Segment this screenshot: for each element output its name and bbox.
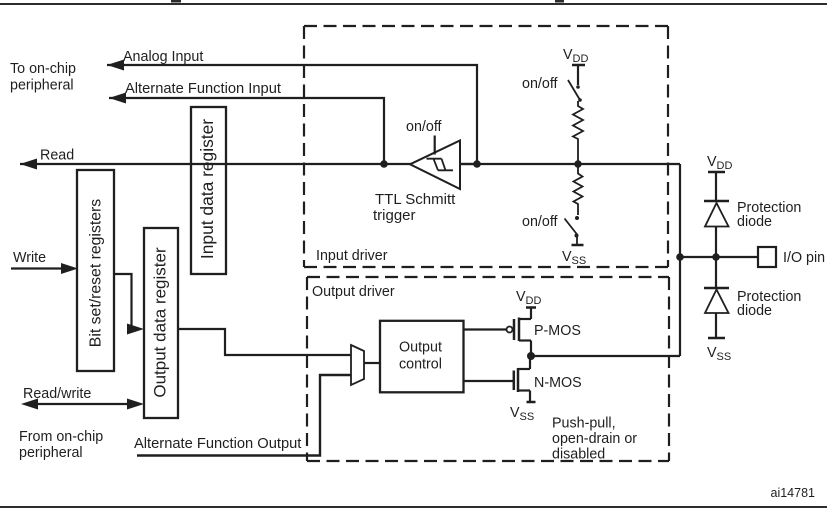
svg-text:on/off: on/off: [406, 119, 442, 135]
svg-text:VSS: VSS: [510, 405, 534, 423]
svg-text:From on-chip: From on-chip: [19, 429, 103, 445]
svg-text:open-drain or: open-drain or: [552, 431, 637, 447]
svg-text:I/O pin: I/O pin: [783, 250, 825, 266]
svg-text:P-MOS: P-MOS: [534, 323, 581, 339]
svg-text:N-MOS: N-MOS: [534, 375, 582, 391]
svg-text:Push-pull,: Push-pull,: [552, 416, 616, 432]
svg-text:Analog Input: Analog Input: [123, 49, 203, 65]
svg-text:VSS: VSS: [562, 249, 586, 267]
svg-text:VDD: VDD: [563, 47, 588, 65]
svg-text:TTL Schmitt: TTL Schmitt: [375, 191, 456, 208]
svg-text:Write: Write: [13, 250, 46, 266]
svg-text:peripheral: peripheral: [19, 445, 83, 461]
svg-text:Output: Output: [399, 340, 442, 356]
svg-text:diode: diode: [737, 303, 772, 319]
svg-text:ai14781: ai14781: [771, 486, 816, 500]
svg-text:Read/write: Read/write: [23, 386, 91, 402]
svg-text:Alternate Function Input: Alternate Function Input: [125, 81, 281, 97]
svg-text:diode: diode: [737, 214, 772, 230]
svg-text:Output data register: Output data register: [151, 247, 170, 398]
svg-text:Bit set/reset registers: Bit set/reset registers: [88, 199, 105, 347]
svg-text:peripheral: peripheral: [10, 78, 74, 94]
svg-text:on/off: on/off: [522, 214, 558, 230]
svg-text:disabled: disabled: [552, 447, 605, 463]
svg-text:To on-chip: To on-chip: [10, 61, 76, 77]
svg-text:VSS: VSS: [707, 345, 731, 363]
svg-text:Input data register: Input data register: [197, 119, 217, 259]
svg-text:control: control: [399, 357, 442, 373]
svg-text:VDD: VDD: [516, 289, 541, 307]
svg-text:VDD: VDD: [707, 154, 732, 172]
svg-text:Output driver: Output driver: [312, 284, 395, 300]
svg-text:Read: Read: [40, 148, 74, 164]
svg-text:Input driver: Input driver: [316, 248, 388, 264]
svg-text:on/off: on/off: [522, 76, 558, 92]
svg-text:Alternate Function Output: Alternate Function Output: [134, 436, 301, 452]
svg-text:trigger: trigger: [373, 207, 416, 224]
